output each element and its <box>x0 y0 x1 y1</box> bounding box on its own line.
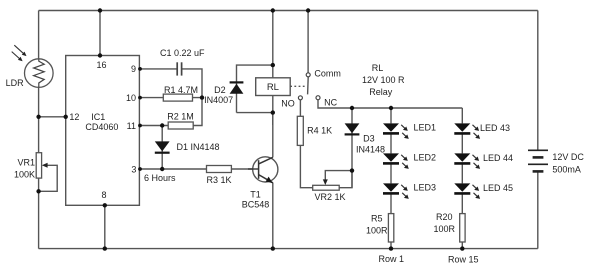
svg-text:VR1: VR1 <box>17 157 35 167</box>
svg-text:LED 45: LED 45 <box>483 183 513 193</box>
svg-text:C1 0.22 uF: C1 0.22 uF <box>160 48 205 58</box>
svg-text:Row 1: Row 1 <box>379 254 405 264</box>
svg-text:R20: R20 <box>436 212 453 222</box>
svg-text:D1 IN4148: D1 IN4148 <box>177 142 220 152</box>
svg-text:IC1: IC1 <box>91 112 105 122</box>
svg-text:RL: RL <box>267 82 279 93</box>
svg-text:100K: 100K <box>14 169 35 179</box>
svg-text:100R: 100R <box>434 224 456 234</box>
svg-text:NO: NO <box>281 98 295 108</box>
svg-text:LED3: LED3 <box>414 182 437 192</box>
svg-text:BC548: BC548 <box>242 200 270 210</box>
svg-text:11: 11 <box>127 121 136 131</box>
svg-text:Row 15: Row 15 <box>448 255 479 265</box>
svg-text:IN4007: IN4007 <box>204 95 233 105</box>
svg-text:10: 10 <box>126 93 136 103</box>
svg-text:9: 9 <box>131 64 136 74</box>
svg-text:LED 43: LED 43 <box>480 123 510 133</box>
svg-text:16: 16 <box>96 60 106 70</box>
svg-text:D2: D2 <box>214 85 226 95</box>
svg-text:R4 1K: R4 1K <box>307 126 332 136</box>
svg-text:12V 100 R: 12V 100 R <box>362 75 405 85</box>
svg-text:LED1: LED1 <box>414 122 437 132</box>
svg-text:8: 8 <box>101 190 106 200</box>
svg-text:12V DC: 12V DC <box>552 152 584 162</box>
svg-text:R5: R5 <box>371 213 383 223</box>
svg-text:6 Hours: 6 Hours <box>144 173 176 183</box>
svg-text:R3 1K: R3 1K <box>207 175 232 185</box>
svg-text:RL: RL <box>372 63 384 73</box>
svg-text:NC: NC <box>324 98 337 108</box>
svg-text:Comm: Comm <box>314 69 341 79</box>
svg-text:12: 12 <box>69 112 79 122</box>
svg-text:LED 44: LED 44 <box>483 153 513 163</box>
svg-text:100R: 100R <box>366 225 388 235</box>
svg-text:VR2 1K: VR2 1K <box>315 192 346 202</box>
svg-text:CD4060: CD4060 <box>85 122 118 132</box>
svg-text:R1 4.7M: R1 4.7M <box>164 85 198 95</box>
svg-text:D3: D3 <box>363 134 375 144</box>
svg-text:500mA: 500mA <box>552 164 581 174</box>
svg-text:R2 1M: R2 1M <box>167 112 194 122</box>
svg-text:3: 3 <box>131 164 136 174</box>
svg-text:IN4148: IN4148 <box>356 145 385 155</box>
svg-text:LED2: LED2 <box>414 152 437 162</box>
svg-text:Relay: Relay <box>369 87 393 97</box>
svg-text:T1: T1 <box>250 190 261 200</box>
svg-text:LDR: LDR <box>6 78 25 88</box>
